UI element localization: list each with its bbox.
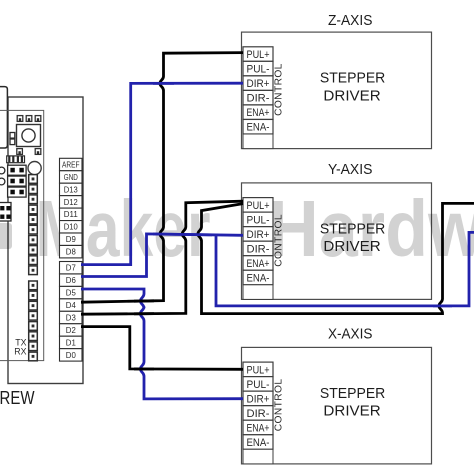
label Y-AXIS — [328, 161, 373, 178]
svg-text:ENA-: ENA- — [247, 272, 270, 284]
crossing patch: Y DIR+ wire over hops — [153, 233, 212, 237]
empty terminal cell of Y axis driver — [243, 285, 273, 300]
svg-text:GND: GND — [64, 172, 78, 182]
crossing patch: D4 wire over D5 hop — [134, 299, 154, 302]
crossing patch: blue bus over loop hop — [433, 304, 452, 307]
arduino pin D9 — [60, 233, 83, 245]
arduino pin D4 — [60, 299, 83, 311]
pin PUL+ of Y axis driver — [243, 198, 273, 213]
svg-text:ENA-: ENA- — [247, 437, 270, 449]
svg-text:D12: D12 — [64, 197, 78, 207]
watermark text Hardware (cropped at right edge) — [268, 184, 474, 273]
svg-text:D11: D11 — [64, 209, 78, 219]
header J2 at left edge (dots, cropped) — [0, 203, 11, 222]
label Z-AXIS — [328, 12, 373, 29]
pin ENA- of X axis driver — [243, 435, 273, 450]
svg-text:AREF: AREF — [62, 159, 80, 169]
svg-text:PUL-: PUL- — [247, 214, 270, 226]
svg-text:D1: D1 — [66, 337, 76, 347]
stepper driver box Y axis — [242, 183, 432, 300]
svg-text:ENA+: ENA+ — [247, 258, 270, 270]
label STEPPER DRIVER (Y axis) — [320, 221, 386, 256]
capacitor row C1 C2 — [7, 156, 25, 163]
svg-text:D7: D7 — [66, 263, 76, 273]
svg-text:PUL+: PUL+ — [247, 49, 270, 61]
label TX — [15, 338, 26, 348]
wire Y PUL+ loop to right edge (black) — [198, 203, 474, 313]
svg-text:X-AXIS: X-AXIS — [328, 326, 373, 343]
svg-text:STEPPER: STEPPER — [320, 385, 386, 402]
svg-text:RX: RX — [14, 346, 26, 356]
crossing patch: X PUL+ wire over D5 hop — [134, 368, 154, 371]
pin ENA+ of Y axis driver — [243, 256, 273, 271]
icsp header J1 (dots) — [8, 165, 27, 197]
svg-text:CONTROL: CONTROL — [274, 214, 285, 267]
svg-text:REW: REW — [0, 387, 35, 408]
svg-text:ENA-: ENA- — [247, 122, 270, 134]
svg-text:D8: D8 — [66, 247, 76, 257]
wire D4 to Z PUL+ (black) — [81, 53, 243, 303]
svg-text:DIR-: DIR- — [247, 243, 270, 255]
pin DIR+ of Y axis driver — [243, 227, 273, 242]
svg-text:STEPPER: STEPPER — [320, 221, 386, 238]
svg-text:CONTROL: CONTROL — [274, 63, 285, 116]
svg-text:ENA+: ENA+ — [247, 422, 270, 434]
wire D7 to Z DIR+ (blue) — [81, 83, 243, 264]
watermark text Maker — [36, 184, 211, 273]
svg-text:DRIVER: DRIVER — [323, 403, 380, 420]
arduino pin D2 — [60, 324, 83, 336]
svg-text:DIR+: DIR+ — [247, 78, 270, 90]
wire Y DIR+ loop to right edge (blue) — [216, 232, 474, 306]
arduino pin AREF — [60, 158, 83, 170]
watermark fragment at left edge — [0, 223, 12, 249]
svg-text:D9: D9 — [66, 234, 76, 244]
svg-text:PUL+: PUL+ — [247, 200, 270, 212]
svg-text:DRIVER: DRIVER — [323, 87, 380, 104]
svg-text:D3: D3 — [66, 312, 76, 322]
arduino usb connector — [0, 87, 7, 148]
arduino pin GND — [60, 171, 83, 183]
pin DIR+ of Z axis driver — [243, 76, 273, 91]
pin DIR- of Z axis driver — [243, 90, 273, 105]
svg-text:STEPPER: STEPPER — [320, 70, 386, 87]
caption REW (cropped) — [0, 387, 35, 408]
pin PUL- of X axis driver — [243, 377, 273, 392]
arduino pin D3 — [60, 311, 83, 323]
arduino pin D8 — [60, 245, 83, 257]
svg-text:D5: D5 — [66, 288, 76, 298]
arduino pin D12 — [60, 196, 83, 208]
svg-text:PUL+: PUL+ — [247, 364, 270, 376]
arduino pin D7 — [60, 262, 83, 274]
svg-text:D2: D2 — [66, 325, 76, 335]
svg-text:Y-AXIS: Y-AXIS — [328, 161, 373, 178]
empty terminal cell of X axis driver — [243, 449, 273, 464]
wire D6 to Y DIR+ (blue) — [81, 234, 243, 277]
label CONTROL (Z axis) — [274, 63, 285, 116]
arduino pin D1 — [60, 336, 83, 348]
arduino pin D11 — [60, 208, 83, 220]
pin DIR- of X axis driver — [243, 406, 273, 421]
svg-text:DIR+: DIR+ — [247, 393, 270, 405]
svg-text:PUL-: PUL- — [247, 379, 270, 391]
pin PUL- of Z axis driver — [243, 61, 273, 76]
mounting hole circle — [28, 162, 41, 175]
pin ENA- of Z axis driver — [243, 119, 273, 134]
pin ENA+ of X axis driver — [243, 420, 273, 435]
pin PUL+ of X axis driver — [243, 362, 273, 377]
label X-AXIS — [328, 326, 373, 343]
pads at left edge of icsp — [0, 167, 5, 185]
wire D5 to X DIR+ (blue) — [81, 289, 243, 399]
pin header strip — [29, 175, 38, 361]
label CONTROL (Y axis) — [274, 214, 285, 267]
svg-text:D4: D4 — [66, 300, 76, 310]
reset button S1 — [17, 116, 41, 155]
pin ENA+ of Z axis driver — [243, 105, 273, 120]
arduino pin D13 — [60, 183, 83, 195]
svg-text:DIR-: DIR- — [247, 93, 270, 105]
wire D2 to X PUL+ (black) — [81, 327, 243, 370]
crossing patch: D3 wire over D5 hop — [134, 312, 154, 315]
label RX — [14, 346, 26, 356]
svg-text:ENA+: ENA+ — [247, 107, 270, 119]
svg-text:D13: D13 — [64, 184, 78, 194]
arduino inner region rect — [0, 110, 44, 360]
pin ENA- of Y axis driver — [243, 270, 273, 285]
label CONTROL (X axis) — [274, 379, 285, 432]
wire D3 to Y PUL+ (black) — [81, 201, 243, 314]
svg-text:D10: D10 — [64, 222, 78, 232]
svg-text:PUL-: PUL- — [247, 64, 270, 76]
svg-text:CONTROL: CONTROL — [274, 379, 285, 432]
svg-text:D6: D6 — [66, 275, 76, 285]
empty terminal cell of Z axis driver — [243, 134, 273, 149]
pin DIR+ of X axis driver — [243, 391, 273, 406]
svg-text:D0: D0 — [66, 350, 76, 360]
crossing patch: Z DIR+ wire over D4 hop — [153, 82, 174, 85]
svg-text:DIR-: DIR- — [247, 408, 270, 420]
arduino pin D0 — [60, 349, 83, 361]
stepper driver box X axis — [242, 347, 432, 464]
pin PUL- of Y axis driver — [243, 212, 273, 227]
arduino pin D10 — [60, 221, 83, 233]
pin PUL+ of Z axis driver — [243, 47, 273, 62]
arduino pin D6 — [60, 274, 83, 286]
label STEPPER DRIVER (Z axis) — [320, 70, 386, 105]
capacitor pair left of button — [10, 133, 15, 145]
svg-text:DRIVER: DRIVER — [323, 238, 380, 255]
arduino pin D5 — [60, 286, 83, 298]
label STEPPER DRIVER (X axis) — [320, 385, 386, 420]
stepper driver box Z axis — [242, 32, 432, 149]
arduino board outline — [8, 97, 83, 384]
svg-text:DIR+: DIR+ — [247, 229, 270, 241]
pin DIR- of Y axis driver — [243, 241, 273, 256]
svg-text:Z-AXIS: Z-AXIS — [328, 12, 373, 29]
